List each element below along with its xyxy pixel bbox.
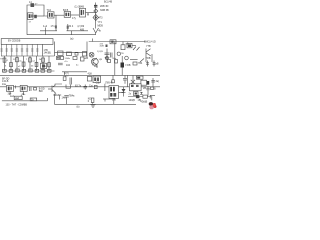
svg-text:83 7a: 83 7a bbox=[75, 84, 82, 87]
svg-text:YDB: YDB bbox=[146, 57, 151, 60]
svg-text:MD2: MD2 bbox=[54, 94, 60, 97]
svg-text:xD: xD bbox=[126, 42, 129, 45]
svg-text:4()9: 4()9 bbox=[88, 73, 93, 76]
svg-text:BDI: BDI bbox=[39, 90, 43, 93]
svg-text:2B: 2B bbox=[143, 87, 146, 90]
svg-text:4Dd(B: 4Dd(B bbox=[141, 100, 148, 103]
svg-text:1 B4a: 1 B4a bbox=[65, 58, 71, 60]
svg-text:4a]: 4a] bbox=[156, 80, 160, 83]
svg-text:1a4: 1a4 bbox=[10, 95, 15, 98]
svg-text:2DB 3D: 2DB 3D bbox=[100, 5, 109, 8]
svg-text:TC4: TC4 bbox=[47, 9, 52, 12]
svg-text:D(7): D(7) bbox=[64, 72, 69, 75]
svg-text:1(B: 1(B bbox=[99, 59, 103, 61]
svg-text:(789.4]: (789.4] bbox=[105, 82, 113, 85]
svg-text:4+2: 4+2 bbox=[43, 25, 48, 28]
svg-text:104(B: 104(B bbox=[129, 99, 136, 102]
svg-text:34 4: 34 4 bbox=[69, 25, 74, 28]
svg-text:489: 489 bbox=[80, 29, 85, 32]
svg-text:473: 473 bbox=[99, 17, 104, 20]
svg-text:7c: 7c bbox=[45, 66, 47, 68]
svg-text:7B4: 7B4 bbox=[138, 62, 143, 65]
svg-text:NDB 3B: NDB 3B bbox=[100, 9, 109, 12]
svg-text:Cst: Cst bbox=[89, 84, 93, 87]
svg-text:TR: TR bbox=[0, 59, 3, 61]
svg-text:1(C(B: 1(C(B bbox=[97, 51, 103, 53]
svg-text:BY CDDDB: BY CDDDB bbox=[8, 40, 21, 43]
svg-text:14K(B): 14K(B) bbox=[44, 52, 52, 55]
svg-text:(b): (b) bbox=[77, 105, 80, 108]
svg-text:4L+: 4L+ bbox=[22, 93, 27, 96]
svg-text:7B4a: 7B4a bbox=[69, 95, 75, 98]
svg-text:1C: 1C bbox=[13, 59, 16, 61]
svg-text:17n: 17n bbox=[51, 25, 56, 28]
svg-text:BM(1) 4 (D: BM(1) 4 (D bbox=[144, 41, 156, 44]
svg-text:104: 104 bbox=[66, 64, 71, 67]
svg-text:aB: aB bbox=[156, 63, 159, 66]
svg-text:B(1) 4B: B(1) 4B bbox=[104, 1, 113, 4]
svg-text:4DB: 4DB bbox=[100, 46, 105, 48]
svg-text:(a): (a) bbox=[70, 37, 73, 41]
svg-text:14a: 14a bbox=[2, 83, 7, 86]
svg-text:(1) 3B4B: (1) 3B4B bbox=[75, 5, 85, 8]
svg-text:MDB: MDB bbox=[98, 24, 104, 27]
svg-text:103 - THT - CDMBB: 103 - THT - CDMBB bbox=[6, 104, 28, 107]
svg-text:14a: 14a bbox=[62, 97, 67, 100]
svg-text:B3 B: B3 B bbox=[63, 9, 69, 12]
svg-text:da4: da4 bbox=[15, 97, 20, 100]
svg-text:YTB: YTB bbox=[146, 45, 151, 48]
svg-text:(2 (D9: (2 (D9 bbox=[78, 25, 85, 28]
svg-text:C3]: C3] bbox=[96, 82, 100, 85]
svg-text:Y-DB: Y-DB bbox=[125, 64, 131, 67]
svg-text:12b: 12b bbox=[112, 98, 117, 101]
